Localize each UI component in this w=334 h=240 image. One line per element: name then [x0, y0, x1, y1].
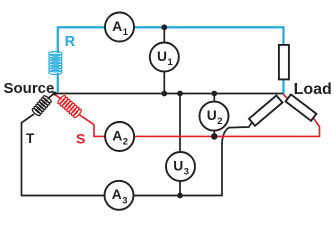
- svg-text:A: A: [112, 128, 122, 143]
- wire: [80, 115, 107, 137]
- wire: [282, 26, 284, 94]
- svg-text:R: R: [65, 34, 76, 50]
- wire T hop arc around U2 and link to load resistor: [222, 122, 252, 144]
- svg-text:U: U: [157, 49, 167, 64]
- wire U1 branch: [163, 27, 165, 93]
- coil R: [49, 52, 62, 75]
- voltmeter U2: [200, 102, 229, 131]
- ammeter A3: [105, 181, 134, 210]
- svg-text:3: 3: [184, 166, 189, 177]
- node junction dot U3 top: [177, 91, 183, 97]
- svg-text:U: U: [207, 108, 217, 123]
- wire S line to load: [133, 119, 320, 137]
- svg-text:1: 1: [123, 26, 128, 37]
- node junction dot U2 top: [211, 91, 217, 97]
- node junction dot U2 bottom on red line: [211, 133, 218, 140]
- ammeter A1: [105, 13, 134, 42]
- svg-text:T: T: [26, 131, 35, 146]
- svg-text:Load: Load: [294, 81, 332, 98]
- node junction dot on cyan line: [161, 24, 167, 30]
- svg-text:A: A: [112, 187, 122, 202]
- wire red apex segment: [283, 94, 288, 100]
- voltmeter U3: [166, 152, 195, 181]
- resistor load R1 vertical: [279, 45, 289, 80]
- svg-text:Source: Source: [4, 80, 55, 97]
- coil T: [31, 95, 52, 117]
- wire middle neutral line: [54, 93, 283, 95]
- svg-text:A: A: [112, 19, 122, 34]
- node source star point: [53, 92, 57, 96]
- wire: [22, 114, 223, 196]
- svg-text:2: 2: [123, 136, 128, 147]
- wire U2 branch: [213, 94, 215, 137]
- coil S: [57, 94, 83, 118]
- wire S phase red: lead from star point: [55, 95, 61, 100]
- wire U3 branch: [179, 94, 181, 196]
- wire: [57, 26, 284, 28]
- ammeter A2: [105, 122, 134, 151]
- svg-text:2: 2: [217, 115, 222, 126]
- wire T phase: lead, left vertical, bottom line: [48, 94, 55, 99]
- wire: [57, 28, 59, 53]
- node junction dot U3 bottom: [177, 193, 183, 199]
- svg-text:1: 1: [167, 56, 172, 67]
- svg-text:U: U: [173, 158, 183, 173]
- wire cyan top line R phase: [57, 73, 59, 92]
- resistor load R2 left diagonal: [249, 95, 282, 125]
- resistor load R3 right diagonal: [286, 94, 317, 120]
- svg-text:3: 3: [122, 194, 127, 205]
- voltmeter U1: [150, 43, 179, 72]
- svg-text:S: S: [76, 131, 85, 147]
- node junction dot U1 bottom: [161, 91, 167, 97]
